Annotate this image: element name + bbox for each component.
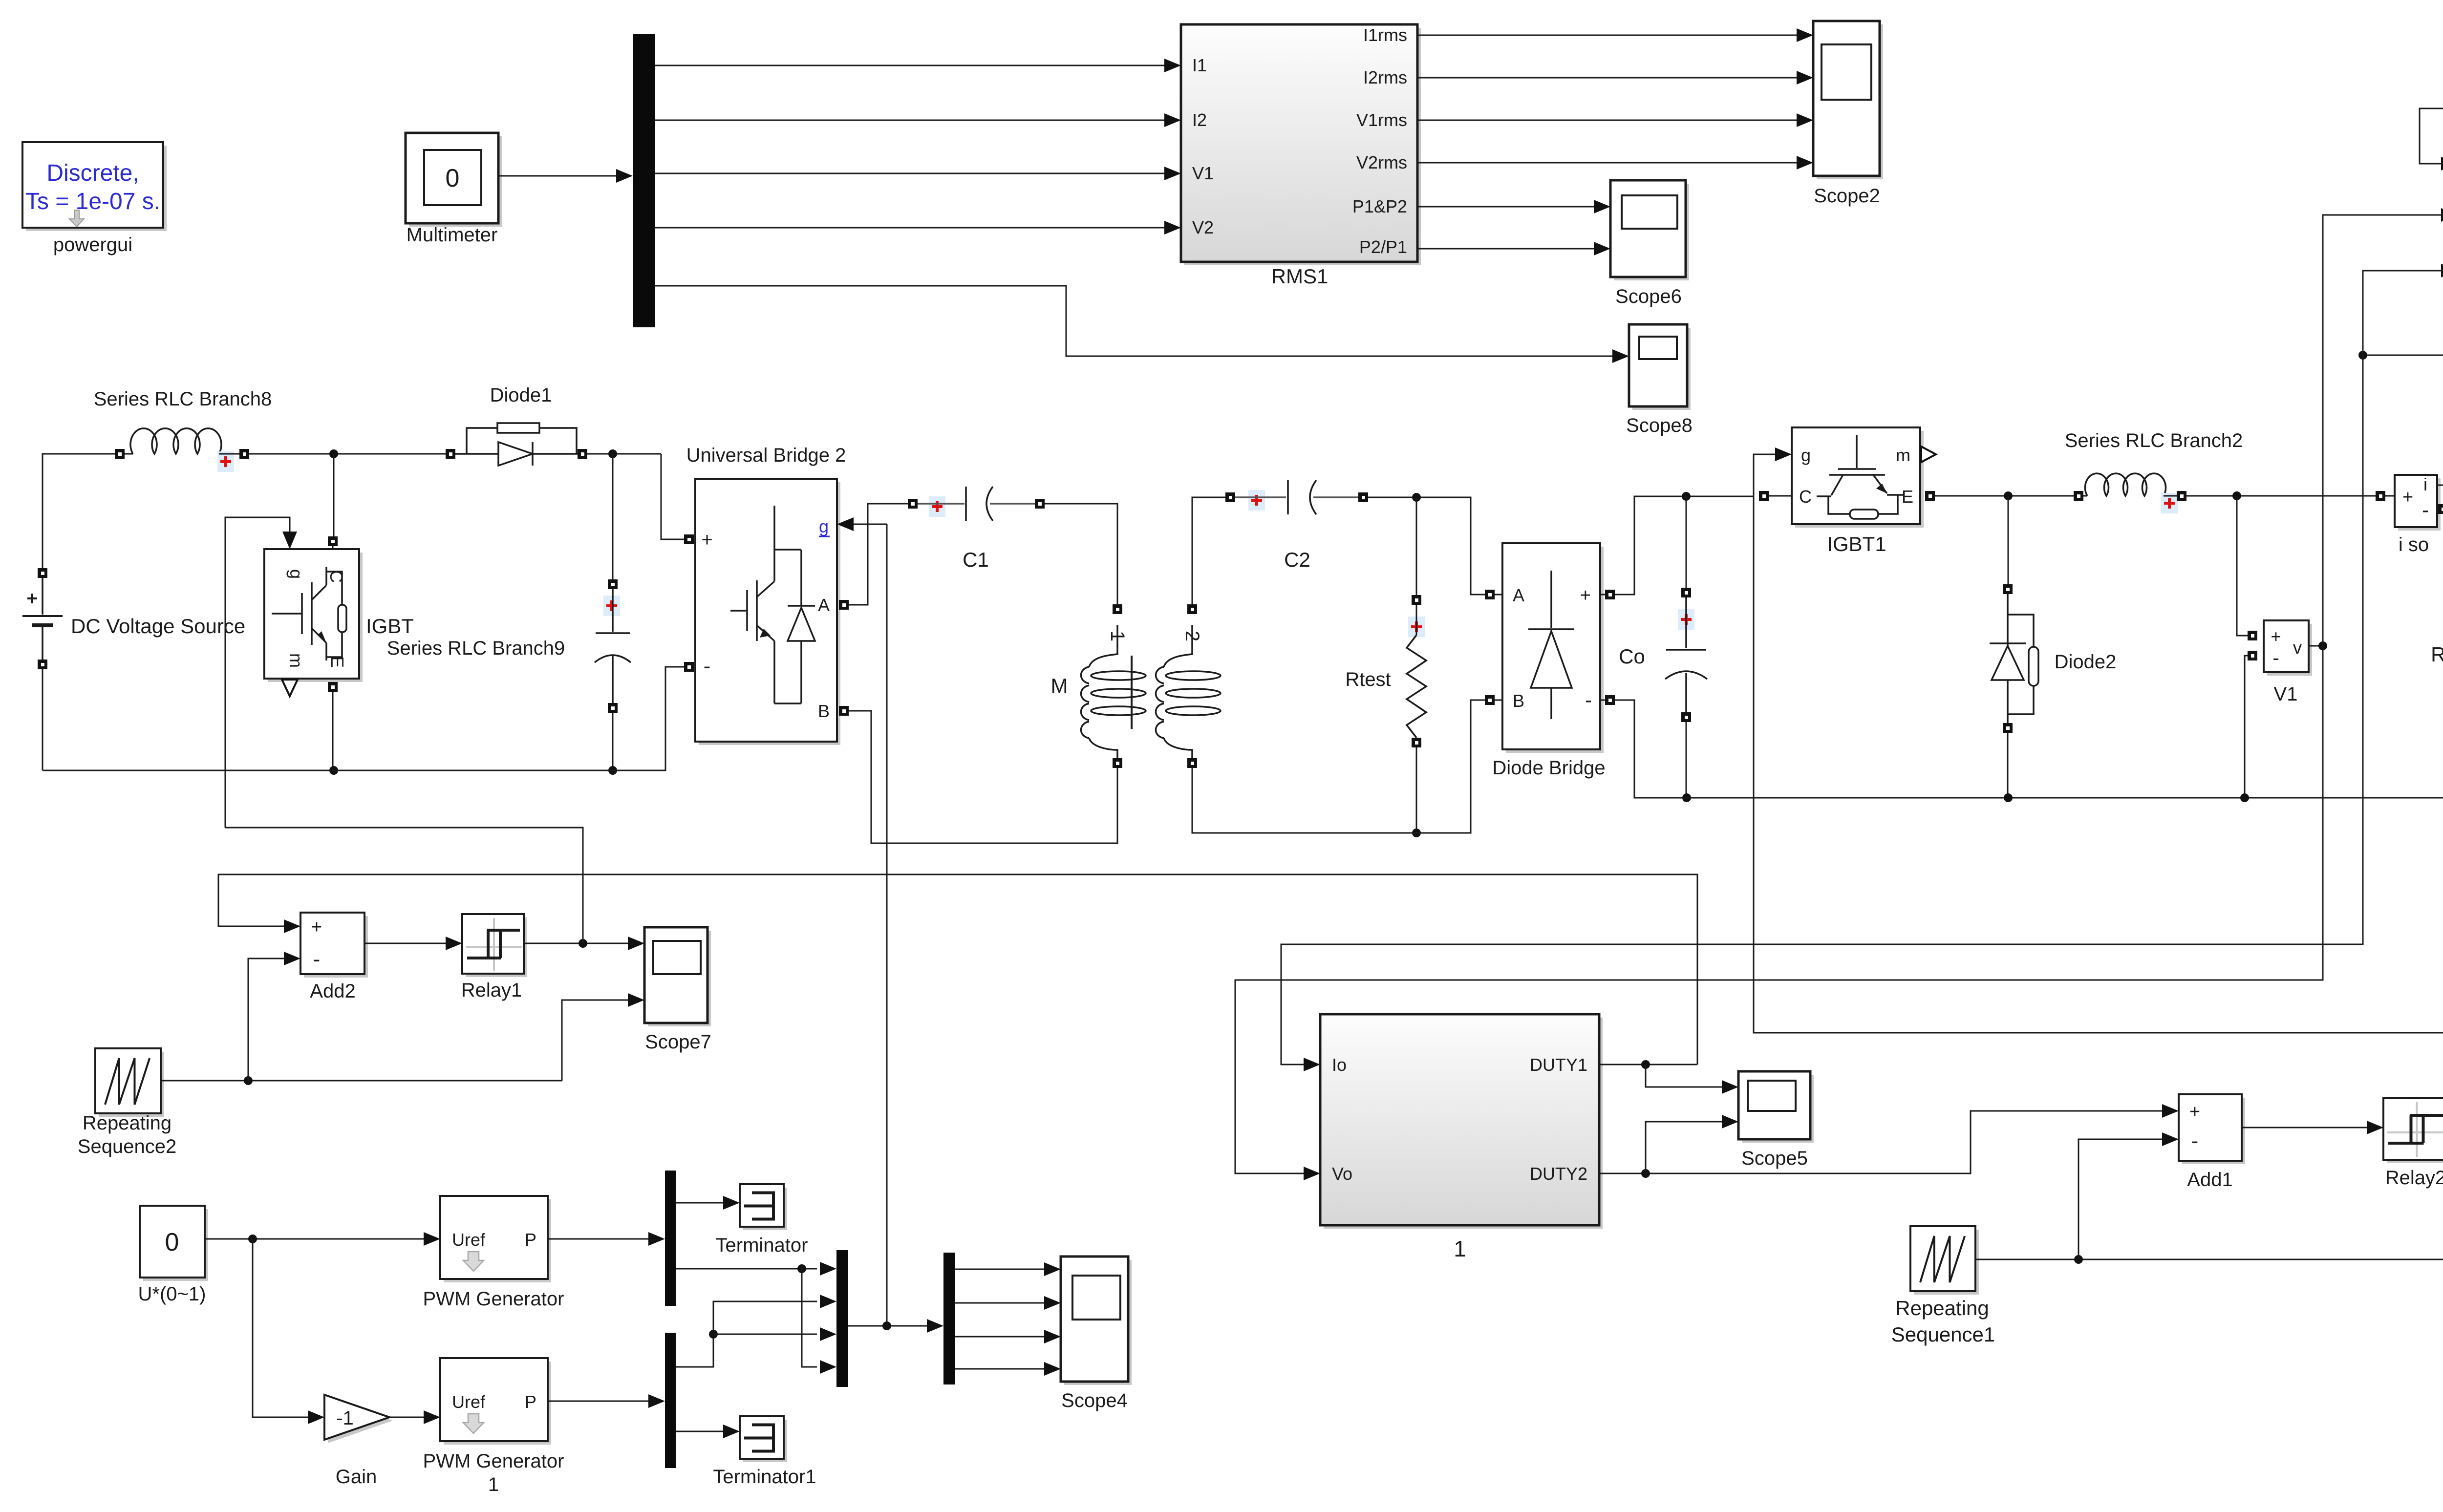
wire DUTY1 feedback to Add2 bbox=[218, 874, 1697, 1065]
svg-text:Sequence1: Sequence1 bbox=[1891, 1323, 1995, 1346]
arrow Scope2 y333 bbox=[1797, 156, 1813, 170]
svg-text:Scope4: Scope4 bbox=[1061, 1390, 1128, 1411]
DB diode symbol bbox=[1528, 571, 1574, 719]
arrow mux in4 bbox=[820, 1360, 836, 1374]
wire PWM1 P out bbox=[548, 1401, 650, 1402]
port DB A bbox=[1485, 590, 1495, 599]
port DC- bbox=[38, 660, 47, 669]
wire RLC8 to node bbox=[249, 453, 446, 455]
wire DUTY2 out bbox=[1599, 1111, 2164, 1173]
port C1 left bbox=[908, 499, 918, 509]
demux bar upper bbox=[665, 1171, 676, 1306]
arrow Add1 minus bbox=[2162, 1132, 2179, 1146]
svg-text:Add2: Add2 bbox=[310, 980, 355, 1002]
svg-text:Diode Bridge: Diode Bridge bbox=[1492, 757, 1605, 779]
svg-text:-1: -1 bbox=[336, 1407, 354, 1429]
svg-text:RL: RL bbox=[2431, 643, 2443, 666]
UB internal symbol bbox=[730, 506, 815, 703]
arrow 1 Vo in bbox=[1304, 1167, 1320, 1180]
wire node down to IGBT C bbox=[333, 454, 335, 536]
wire UB A to C1 bbox=[849, 504, 908, 605]
arrow Scope5 in2 bbox=[1722, 1115, 1738, 1129]
arrow Scope6 in1 bbox=[1594, 200, 1610, 213]
svg-text:Rtest: Rtest bbox=[1345, 669, 1391, 690]
svg-text:I2: I2 bbox=[1192, 110, 1207, 130]
svg-text:+: + bbox=[1580, 585, 1591, 606]
wire RS1 out bbox=[1975, 1161, 2443, 1259]
wire P1&P2 to Scope6 bbox=[1417, 206, 1594, 208]
wire RMS1 to Scope2 y72 bbox=[1417, 35, 1797, 36]
wire U to Gain bbox=[253, 1239, 309, 1417]
port V1 minus bbox=[2248, 651, 2257, 660]
port Rtest bottom bbox=[1412, 738, 1421, 747]
wire RLC9 top bbox=[612, 454, 614, 579]
svg-text:Series RLC Branch2: Series RLC Branch2 bbox=[2065, 430, 2243, 451]
port RLC2 right bbox=[2177, 491, 2186, 501]
IGBT g arrow bbox=[282, 532, 297, 549]
wire demux2 to Terminator1 bbox=[676, 1431, 724, 1432]
wire V1 to scope3 in2 bbox=[2323, 215, 2442, 646]
port C2 left bbox=[1225, 492, 1235, 502]
demux bar scope4 bbox=[943, 1253, 955, 1384]
wire RS1 to Add1 minus bbox=[2079, 1139, 2164, 1259]
wire demux to RMS1 V2 bbox=[655, 227, 1165, 229]
wire pulse to scope3 in1 bbox=[2420, 108, 2443, 400]
wire P2/P1 to Scope6 bbox=[1417, 248, 1594, 250]
junction RS1 Add1 bbox=[2074, 1255, 2083, 1264]
port RLC9 top bbox=[608, 579, 618, 589]
port DC+ bbox=[38, 568, 47, 578]
IGBT1 m output arrow bbox=[1921, 447, 1936, 462]
PWM1 gray arrow bbox=[463, 1414, 484, 1433]
IGBT1 g arrow bbox=[1775, 447, 1792, 461]
wire demux2 out1 bbox=[676, 1301, 817, 1367]
wire Add1 to Relay2 bbox=[2242, 1127, 2368, 1129]
junction U out bbox=[248, 1235, 257, 1243]
svg-text:+: + bbox=[2402, 487, 2413, 508]
svg-text:P: P bbox=[525, 1230, 536, 1250]
UB g input arrow bbox=[837, 517, 854, 531]
wire PWM P out bbox=[548, 1238, 650, 1240]
arrow PWM Uref in bbox=[424, 1232, 440, 1246]
port DB minus bbox=[1605, 695, 1615, 705]
port UB plus bbox=[684, 534, 694, 544]
wire RMS1 to Scope2 y159 bbox=[1417, 77, 1797, 79]
capacitor Co bbox=[1665, 597, 1707, 712]
port Co top bbox=[1681, 588, 1691, 597]
capacitor C1 bbox=[918, 487, 1035, 521]
Repeating Sequence2 block bbox=[95, 1048, 164, 1117]
arrow Scope3 in1 bbox=[2441, 157, 2443, 170]
IGBT1 block bbox=[1792, 427, 1924, 528]
svg-text:0: 0 bbox=[446, 164, 460, 192]
junction V1 v out bbox=[2318, 641, 2327, 650]
capacitor C2 bbox=[1235, 480, 1358, 514]
wire demux to RMS1 I1 bbox=[655, 65, 1165, 66]
IGBT1 internal symbol bbox=[1817, 435, 1904, 519]
svg-text:V1: V1 bbox=[2274, 683, 2298, 705]
wire primary bottom rail bbox=[43, 667, 684, 770]
red plus C2 bbox=[1248, 490, 1265, 511]
wire winding1 to UB B bbox=[849, 711, 1117, 843]
wire V1 minus bbox=[2245, 656, 2248, 798]
wire demux to RMS1 V1 bbox=[655, 173, 1165, 174]
junction RLC9 rail bbox=[608, 766, 617, 775]
wire demux1 to Terminator bbox=[676, 1202, 724, 1204]
svg-text:Series RLC Branch9: Series RLC Branch9 bbox=[387, 638, 565, 659]
arrow Relay1 in bbox=[446, 937, 462, 950]
diode2 body bbox=[1990, 594, 2038, 723]
arrow mux in1 bbox=[820, 1262, 836, 1276]
svg-text:V1rms: V1rms bbox=[1356, 110, 1407, 130]
svg-text:A: A bbox=[1513, 585, 1524, 605]
inductor Series RLC Branch2 bbox=[2085, 473, 2166, 496]
Scope4 block bbox=[1061, 1256, 1132, 1385]
arrow Scope4 in3 bbox=[1044, 1330, 1061, 1343]
port IGBT C bbox=[328, 536, 338, 546]
port Diode2 top bbox=[2003, 584, 2013, 594]
RMS1 block bbox=[1181, 24, 1421, 265]
wire DC+ up bbox=[43, 454, 115, 568]
Scope5 block bbox=[1738, 1071, 1814, 1143]
port C2 right bbox=[1358, 492, 1368, 502]
wire V1 plus bbox=[2237, 496, 2248, 636]
svg-text:Universal Bridge 2: Universal Bridge 2 bbox=[686, 445, 846, 466]
wire UB g bbox=[854, 524, 887, 525]
Terminator1 block bbox=[740, 1416, 787, 1462]
svg-text:-: - bbox=[313, 947, 321, 971]
svg-text:U*(0~1): U*(0~1) bbox=[138, 1283, 206, 1305]
wire IGBT1 E rail bbox=[1935, 495, 2074, 497]
port UB A bbox=[839, 600, 849, 610]
wire RLC9 bottom bbox=[612, 713, 614, 770]
wire Rtest top bbox=[1416, 497, 1417, 595]
svg-text:Relay2: Relay2 bbox=[2385, 1167, 2443, 1189]
junction DUTY1 bbox=[1641, 1060, 1650, 1069]
wire into IGBT g bbox=[225, 517, 290, 828]
DB minus stub bbox=[1600, 700, 1605, 701]
wire demux scope4 out3 bbox=[955, 1336, 1046, 1338]
svg-text:RMS1: RMS1 bbox=[1271, 265, 1329, 288]
wire gate vec1 branch bbox=[802, 1269, 817, 1367]
powergui gray arrow bbox=[69, 210, 84, 227]
arrow demux scope4 in bbox=[927, 1319, 943, 1333]
Scope8 block bbox=[1629, 324, 1691, 410]
svg-text:+: + bbox=[701, 529, 712, 551]
IGBT internal symbol bbox=[272, 567, 346, 660]
Diode Bridge block bbox=[1502, 543, 1604, 753]
svg-text:I1rms: I1rms bbox=[1363, 25, 1407, 45]
demux bar lower bbox=[665, 1333, 676, 1468]
svg-text:Relay1: Relay1 bbox=[461, 980, 522, 1001]
wire DB plus to rail bbox=[1615, 496, 1754, 595]
junction Co top bbox=[1682, 492, 1691, 501]
svg-text:i: i bbox=[2423, 474, 2427, 494]
port IGBT1 C bbox=[1759, 491, 1769, 501]
RLC8 right stub bbox=[219, 453, 239, 455]
wire Co top bbox=[1686, 496, 1687, 588]
RLC2 right stub bbox=[2164, 495, 2177, 497]
arrow Scope4 in1 bbox=[1044, 1262, 1061, 1276]
V1 out stub bbox=[2309, 645, 2323, 647]
wire DUTY2 to Scope5 bbox=[1646, 1122, 1723, 1173]
arrow Terminator1 in bbox=[723, 1425, 740, 1438]
port winding1 top bbox=[1113, 604, 1122, 614]
wire RS2 to Scope7 in2 bbox=[562, 1000, 629, 1081]
junction Diode2 top bbox=[2004, 491, 2013, 500]
svg-text:Multimeter: Multimeter bbox=[407, 224, 498, 246]
wire DC- down bbox=[42, 669, 43, 770]
svg-text:P: P bbox=[525, 1392, 536, 1412]
arrow Gain in bbox=[308, 1410, 324, 1424]
wire Diode2 bottom bbox=[2007, 733, 2009, 798]
arrow Scope4 in4 bbox=[1044, 1362, 1061, 1376]
junction i so scope3 bbox=[2358, 351, 2367, 360]
arrow Terminator in bbox=[723, 1196, 740, 1210]
svg-text:Scope7: Scope7 bbox=[645, 1031, 711, 1053]
wire gate vec2 branch bbox=[713, 1334, 817, 1335]
svg-text:IGBT1: IGBT1 bbox=[1827, 532, 1886, 555]
arrow demux2 in bbox=[648, 1394, 665, 1408]
Scope2 block bbox=[1813, 21, 1883, 179]
svg-text:+: + bbox=[311, 917, 322, 937]
wire mux to UB g bbox=[886, 524, 888, 1326]
svg-text:-: - bbox=[1585, 688, 1592, 711]
svg-text:-: - bbox=[2191, 1129, 2199, 1153]
IGBT block bbox=[264, 549, 363, 682]
wire RMS1 to Scope2 y333 bbox=[1417, 162, 1797, 164]
wire relay2 to IGBT1 g bbox=[1754, 454, 2443, 1033]
port RLC8 right bbox=[239, 449, 249, 459]
arrow PWM1 Uref in bbox=[424, 1410, 440, 1424]
IGBT1 C stub bbox=[1769, 495, 1792, 497]
wire demux scope4 out2 bbox=[955, 1302, 1046, 1304]
port RLC9 bottom bbox=[608, 703, 618, 713]
wire Relay1 to UB g path bbox=[225, 828, 583, 943]
port Co bottom bbox=[1681, 712, 1691, 722]
wire demux scope4 out4 bbox=[955, 1368, 1046, 1370]
svg-text:Diode2: Diode2 bbox=[2055, 651, 2117, 673]
svg-text:g: g bbox=[819, 516, 829, 536]
resistor Rtest bbox=[1407, 635, 1426, 738]
arrow RMS1 V2 bbox=[1164, 221, 1181, 234]
DB plus stub bbox=[1600, 594, 1605, 596]
Terminator block bbox=[740, 1184, 787, 1230]
Relay1 block bbox=[462, 914, 527, 977]
port UB minus bbox=[684, 662, 694, 672]
red plus Co bbox=[1678, 609, 1694, 630]
mux bar gates bbox=[836, 1250, 848, 1387]
port RLC8 left bbox=[115, 449, 125, 459]
port IGBT E bbox=[328, 682, 338, 692]
wire mux out bbox=[848, 1325, 927, 1327]
svg-text:Io: Io bbox=[1332, 1055, 1347, 1075]
svg-text:I2rms: I2rms bbox=[1363, 67, 1407, 87]
wire demux to Scope8 bbox=[655, 286, 1613, 356]
svg-text:Scope5: Scope5 bbox=[1741, 1148, 1808, 1169]
PWM Generator 1 block bbox=[440, 1358, 551, 1445]
wire DB minus to rail bbox=[1615, 700, 2443, 798]
svg-text:Terminator1: Terminator1 bbox=[713, 1466, 816, 1488]
svg-text:Discrete,: Discrete, bbox=[46, 160, 139, 186]
V1 block bbox=[2264, 620, 2312, 676]
svg-text:P2/P1: P2/P1 bbox=[1359, 237, 1407, 257]
svg-text:B: B bbox=[1513, 691, 1524, 711]
wire i so i out bbox=[2363, 355, 2443, 485]
junction Rtest top bbox=[1412, 493, 1421, 502]
svg-text:m: m bbox=[1896, 445, 1910, 465]
arrow Scope8 in bbox=[1612, 349, 1629, 363]
arrow 1 Io in bbox=[1304, 1058, 1320, 1071]
wire DUTY1 to Scope5 bbox=[1646, 1065, 1723, 1087]
arrow demux1 in bbox=[648, 1232, 665, 1246]
Universal Bridge 2 block bbox=[695, 479, 840, 745]
wire demux to RMS1 I2 bbox=[655, 120, 1165, 121]
svg-text:-: - bbox=[2422, 498, 2429, 521]
arrow Relay2 in bbox=[2367, 1121, 2383, 1134]
powergui block bbox=[22, 142, 167, 231]
svg-text:+: + bbox=[2189, 1102, 2200, 1122]
arrow Scope2 y246 bbox=[1797, 113, 1813, 127]
wire Relay1 out bbox=[524, 943, 629, 944]
port winding2 top bbox=[1187, 604, 1197, 614]
svg-text:P1&P2: P1&P2 bbox=[1352, 196, 1407, 216]
multimeter block bbox=[406, 133, 502, 227]
svg-text:v: v bbox=[2293, 638, 2302, 658]
port UB B bbox=[839, 706, 849, 716]
wire DUTY1 out bbox=[1599, 1064, 1697, 1065]
wire Gain to PWM1 bbox=[389, 1417, 425, 1418]
svg-text:g: g bbox=[286, 569, 306, 579]
arrow Add2 plus bbox=[284, 919, 300, 933]
wire Co bottom bbox=[1686, 722, 1687, 798]
port RLC2 left bbox=[2074, 491, 2083, 501]
svg-text:Vo: Vo bbox=[1332, 1164, 1352, 1184]
RLC2 left stub bbox=[2083, 495, 2087, 497]
arrow RMS1 I1 bbox=[1164, 59, 1181, 72]
transformer core line bbox=[1131, 656, 1133, 729]
subsystem 1 block bbox=[1320, 1014, 1603, 1229]
arrow Scope7 in2 bbox=[628, 993, 644, 1007]
port Diode2 bottom bbox=[2003, 723, 2013, 733]
svg-text:IGBT: IGBT bbox=[366, 615, 414, 638]
capacitor Series RLC Branch9 bbox=[595, 589, 631, 703]
junction gate vec1 bbox=[797, 1264, 806, 1273]
wire node to UB+ bbox=[661, 454, 684, 539]
junction gates to UB g bbox=[882, 1321, 891, 1330]
arrow Scope7 in1 bbox=[628, 937, 644, 950]
port i so in bbox=[2376, 491, 2385, 501]
svg-text:+: + bbox=[2271, 626, 2281, 646]
wire RS2 out bbox=[161, 1080, 562, 1082]
port IGBT1 E bbox=[1925, 491, 1935, 501]
RLC8 left stub bbox=[125, 453, 133, 455]
PWM gray arrow bbox=[463, 1252, 484, 1271]
U(0~1) block bbox=[140, 1206, 208, 1281]
Add1 block bbox=[2179, 1094, 2245, 1164]
arrow Add1 plus bbox=[2162, 1104, 2179, 1118]
svg-text:E: E bbox=[1902, 487, 1913, 507]
svg-text:M: M bbox=[1051, 674, 1068, 697]
arrow Scope6 in2 bbox=[1594, 242, 1610, 256]
red plus C1 bbox=[929, 496, 945, 517]
Relay2 block bbox=[2383, 1098, 2443, 1163]
wire IGBT E down bbox=[332, 692, 334, 770]
Add2 block bbox=[300, 913, 368, 978]
Rtest top stub bbox=[1416, 605, 1417, 635]
svg-text:i so: i so bbox=[2399, 534, 2429, 555]
wire C1 to winding1 bbox=[1045, 504, 1117, 604]
svg-text:powergui: powergui bbox=[53, 234, 132, 256]
svg-text:-: - bbox=[704, 654, 711, 678]
UB g underline bbox=[819, 536, 830, 537]
svg-text:PWM Generator: PWM Generator bbox=[423, 1288, 564, 1310]
sawtooth icon RS1 bbox=[1920, 1236, 1965, 1282]
svg-text:C1: C1 bbox=[963, 548, 989, 571]
diode1 body bbox=[455, 423, 578, 466]
arrow mux in2 bbox=[820, 1295, 836, 1308]
arrow Scope3 in2 bbox=[2441, 208, 2443, 222]
demux bar (multimeter) bbox=[633, 34, 655, 327]
svg-text:PWM Generator: PWM Generator bbox=[423, 1450, 564, 1472]
wire Io line bbox=[1281, 355, 2363, 1065]
wire Diode1 to node bbox=[587, 453, 661, 455]
wire winding2 bottom rail bbox=[1192, 700, 1485, 833]
svg-text:Repeating: Repeating bbox=[83, 1112, 171, 1134]
svg-text:Series RLC Branch8: Series RLC Branch8 bbox=[94, 388, 272, 410]
wire winding2 to C2 bbox=[1192, 497, 1225, 604]
Scope6 block bbox=[1610, 180, 1689, 280]
arrow RMS1 I2 bbox=[1164, 113, 1181, 127]
port C1 right bbox=[1035, 499, 1045, 509]
svg-text:Scope6: Scope6 bbox=[1615, 286, 1682, 307]
wire iso to scope3 in3 bbox=[2363, 271, 2442, 355]
wire RLC2 to i so bbox=[2186, 495, 2376, 497]
junction V1 plus bbox=[2232, 491, 2241, 500]
PWM Generator block bbox=[440, 1196, 551, 1282]
svg-text:Uref: Uref bbox=[452, 1230, 486, 1250]
Scope7 block bbox=[644, 927, 711, 1026]
arrow Scope5 in1 bbox=[1722, 1080, 1738, 1094]
wire Add2 to Relay1 bbox=[364, 943, 447, 944]
junction DUTY2 bbox=[1641, 1169, 1650, 1178]
transformer winding 2 bbox=[1156, 625, 1221, 760]
svg-text:DUTY2: DUTY2 bbox=[1530, 1164, 1587, 1184]
svg-text:Scope8: Scope8 bbox=[1626, 415, 1693, 436]
wire demux scope4 out1 bbox=[955, 1269, 1046, 1270]
junction V1 minus rail bbox=[2240, 793, 2249, 802]
arrow Scope2 y72 bbox=[1797, 28, 1813, 42]
junction Relay1 out bbox=[579, 939, 587, 948]
port i so minus out bbox=[2438, 504, 2443, 514]
port DB plus bbox=[1605, 590, 1615, 599]
junction IGBT E rail bbox=[329, 766, 338, 775]
svg-text:Uref: Uref bbox=[452, 1392, 486, 1412]
wire Rtest bottom bbox=[1416, 747, 1417, 833]
Gain triangle bbox=[324, 1395, 393, 1443]
red plus RLC2 bbox=[2161, 493, 2178, 513]
svg-text:Repeating: Repeating bbox=[1895, 1297, 1989, 1320]
port winding2 bottom bbox=[1187, 758, 1197, 768]
Repeating Sequence1 block bbox=[1910, 1226, 1979, 1295]
svg-text:1: 1 bbox=[488, 1474, 499, 1495]
svg-text:0: 0 bbox=[165, 1228, 179, 1256]
junction RS2 bbox=[244, 1076, 253, 1085]
junction Co rail bbox=[1682, 793, 1691, 802]
svg-text:I1: I1 bbox=[1192, 55, 1207, 75]
svg-text:DC Voltage Source: DC Voltage Source bbox=[71, 615, 245, 638]
port Rtest top bbox=[1412, 595, 1421, 605]
